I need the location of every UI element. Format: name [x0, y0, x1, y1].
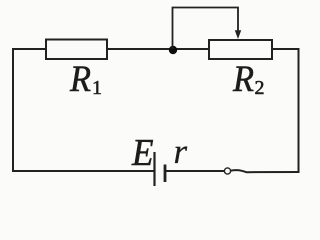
wire bottom left (to battery)	[13, 170, 154, 172]
wire R2 to right	[272, 48, 299, 50]
battery short plate	[164, 165, 167, 183]
resistor R2	[209, 40, 272, 59]
svg-text:R: R	[69, 59, 91, 100]
svg-text:1: 1	[92, 77, 102, 99]
wire right vertical	[298, 49, 300, 172]
svg-text:E: E	[131, 132, 153, 174]
wiper arrow over R2	[173, 8, 242, 49]
svg-text:r: r	[174, 132, 188, 171]
node A (junction dot)	[169, 46, 177, 54]
wire top left (to R1)	[13, 48, 46, 50]
resistor R1	[46, 40, 107, 60]
wire R1 to node	[107, 48, 209, 50]
switch	[224, 168, 230, 174]
svg-text:2: 2	[255, 77, 265, 99]
wire left vertical	[12, 49, 14, 171]
wire battery to switch	[165, 170, 224, 172]
wire bottom right (switch to corner)	[231, 170, 299, 172]
battery E long plate	[153, 152, 155, 186]
svg-text:R: R	[232, 59, 254, 100]
